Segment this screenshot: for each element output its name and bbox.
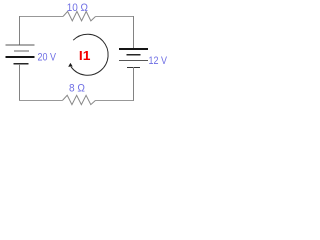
wire right vertical lower bbox=[133, 67, 135, 101]
svg-text:10 Ω: 10 Ω bbox=[67, 2, 88, 14]
resistor R2 zigzag (8 ohm, bottom) bbox=[63, 95, 96, 104]
resistor R1 zigzag (10 ohm, top) bbox=[63, 11, 96, 21]
wire bottom-left segment bbox=[19, 100, 63, 102]
battery V2 12V (right, two cells) bbox=[119, 49, 148, 68]
loop current arrowhead bbox=[68, 63, 73, 67]
svg-text:12 V: 12 V bbox=[149, 55, 168, 67]
svg-text:I1: I1 bbox=[79, 48, 91, 63]
battery V1 20V (left, two cells) bbox=[6, 45, 35, 64]
wire top-right segment bbox=[96, 16, 135, 18]
wire top-left segment bbox=[19, 16, 63, 18]
svg-text:20 V: 20 V bbox=[38, 52, 57, 64]
loop current arrow I1 (clockwise arc) bbox=[71, 34, 108, 75]
wire left vertical lower bbox=[19, 64, 21, 101]
wire bottom-right segment bbox=[96, 100, 135, 102]
wire right vertical upper bbox=[133, 16, 135, 48]
wire left vertical upper bbox=[19, 16, 21, 45]
svg-text:8 Ω: 8 Ω bbox=[69, 83, 85, 95]
